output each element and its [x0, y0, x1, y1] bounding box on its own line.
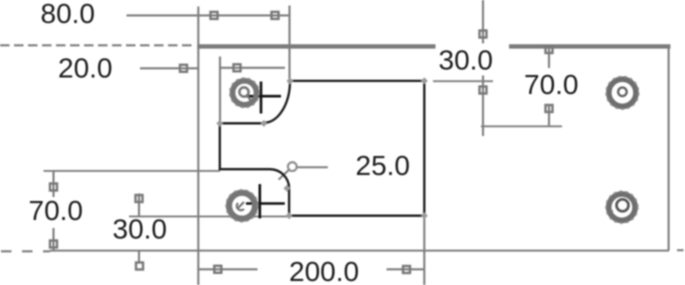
- svg-text:30.0: 30.0: [439, 44, 494, 75]
- svg-text:70.0: 70.0: [524, 69, 579, 100]
- svg-text:70.0: 70.0: [29, 195, 84, 226]
- svg-text:200.0: 200.0: [289, 256, 359, 285]
- svg-text:20.0: 20.0: [58, 53, 113, 84]
- svg-text:30.0: 30.0: [113, 213, 168, 244]
- svg-text:80.0: 80.0: [41, 0, 96, 29]
- svg-text:25.0: 25.0: [356, 150, 411, 181]
